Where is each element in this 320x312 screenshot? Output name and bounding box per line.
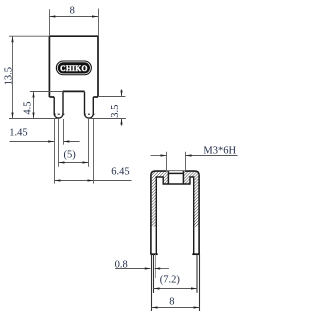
inner outline (156, 177, 193, 254)
svg-text:CHIKO: CHIKO (60, 64, 88, 73)
svg-text:0.8: 0.8 (115, 259, 128, 270)
legs (152, 254, 200, 311)
dimension 8 (bottom) (152, 307, 200, 309)
outer outline (151, 171, 199, 254)
logo CHIKO (56, 61, 92, 76)
dimension 4.5 (30, 92, 64, 119)
hatched shell (151, 171, 199, 227)
dimension 8 (top) (49, 9, 98, 37)
dimension 0.8 (115, 268, 169, 270)
svg-text:1.45: 1.45 (9, 128, 27, 139)
bore (168, 171, 183, 184)
svg-text:M3*6H: M3*6H (203, 146, 236, 157)
svg-text:4.5: 4.5 (23, 101, 34, 114)
tick dashes at leg necks (54, 113, 95, 115)
dimension (5) (59, 119, 89, 167)
svg-text:(7.2): (7.2) (160, 274, 181, 285)
dimension 6.45 (55, 119, 132, 184)
svg-text:8: 8 (70, 5, 75, 16)
left leg (54, 92, 93, 118)
svg-text:6.45: 6.45 (111, 167, 129, 178)
wall bottom caps (150, 253, 199, 255)
svg-text:13.5: 13.5 (4, 67, 15, 85)
dimension 1.45 (10, 119, 80, 184)
M3*6H callout (151, 152, 238, 171)
body outline (49, 36, 98, 97)
dimension (7.2) (154, 288, 198, 290)
svg-text:(5): (5) (63, 149, 76, 160)
dimension 3.5 (right) (89, 89, 126, 126)
svg-text:8: 8 (169, 296, 174, 307)
dimension 13.5 (left) (9, 36, 59, 118)
svg-text:3.5: 3.5 (110, 105, 121, 118)
thin thread crest line across hole top (166, 170, 185, 172)
